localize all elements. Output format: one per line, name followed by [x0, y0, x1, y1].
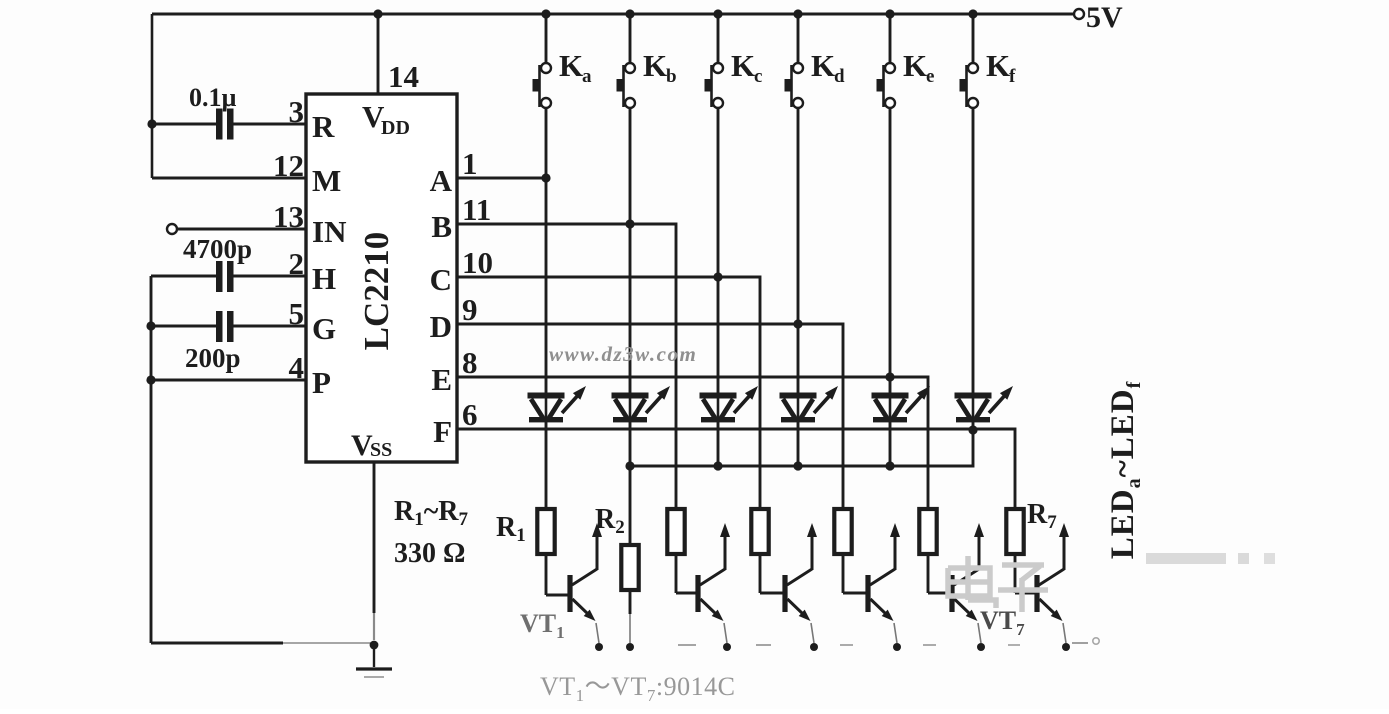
transistor VT6 — [928, 523, 984, 643]
svg-text:e: e — [926, 66, 934, 87]
svg-text:4: 4 — [289, 350, 305, 385]
pin F name — [433, 414, 452, 449]
wire IN row — [177, 228, 306, 231]
svg-text:a: a — [582, 66, 592, 87]
svg-text:K: K — [986, 48, 1010, 83]
label VDD — [362, 99, 410, 139]
svg-text:D: D — [430, 309, 452, 344]
pin M name — [312, 163, 341, 198]
wire LED a tail — [545, 422, 548, 509]
svg-text:330 Ω: 330 Ω — [394, 538, 465, 569]
junction rail-cole — [885, 9, 894, 18]
switch Kf — [960, 14, 979, 108]
wire col e upper — [889, 108, 892, 377]
switch Kc — [705, 14, 724, 108]
svg-text:www.dz3w.com: www.dz3w.com — [549, 342, 697, 366]
wire col e mid — [889, 377, 892, 394]
ground — [356, 641, 392, 677]
svg-text:LEDa~LEDf: LEDa~LEDf — [1105, 381, 1145, 560]
svg-text:2: 2 — [289, 246, 305, 281]
node VT3 emitter — [723, 643, 731, 651]
junction bus-cole — [885, 461, 894, 470]
wire A row pin1 — [457, 177, 546, 180]
wire col a upper — [545, 108, 548, 178]
switch Ke — [877, 14, 896, 108]
svg-text:14: 14 — [388, 59, 419, 94]
label R1-R7 value — [394, 496, 469, 569]
wire LED d tail — [797, 422, 800, 466]
svg-text:K: K — [903, 48, 927, 83]
pin B name — [431, 209, 452, 244]
svg-text:B: B — [431, 209, 452, 244]
svg-text:11: 11 — [462, 192, 491, 227]
wire col d upper — [797, 108, 800, 324]
junction left-P — [146, 375, 155, 384]
resistor R1 — [537, 509, 554, 554]
node VT6 emitter — [977, 643, 985, 651]
wire col f upper — [972, 108, 975, 394]
svg-text:4700p: 4700p — [183, 234, 252, 264]
svg-text:f: f — [1009, 66, 1016, 87]
wire LED f tail — [972, 422, 975, 431]
node VT7 emitter — [1062, 643, 1070, 651]
svg-text:M: M — [312, 163, 341, 198]
label Kc — [731, 48, 762, 87]
wire P row — [151, 379, 306, 382]
svg-text:5V: 5V — [1086, 1, 1123, 34]
svg-text:VT1～VT7:9014C: VT1～VT7:9014C — [540, 672, 735, 705]
wire col b upper — [629, 108, 632, 224]
pin 14 label — [388, 59, 419, 94]
svg-text:R1~R7: R1~R7 — [394, 496, 469, 530]
capacitor C2 4700p — [216, 261, 234, 292]
wire col b mid — [629, 224, 632, 394]
junction rail-cold — [793, 9, 802, 18]
pin 2 label — [289, 246, 305, 281]
pin 12 label — [273, 148, 304, 183]
svg-text:R: R — [312, 109, 335, 144]
LED b — [612, 386, 671, 422]
pin H name — [312, 261, 336, 296]
watermark glyphs — [948, 553, 1275, 612]
LED c — [700, 386, 759, 422]
pin 10 label — [462, 245, 493, 280]
svg-text:8: 8 — [462, 345, 478, 380]
junction B-colb — [625, 219, 634, 228]
pin C name — [430, 262, 452, 297]
wire VSS pin — [373, 462, 376, 640]
junction bus-colc — [713, 461, 722, 470]
transistor VT7 — [1015, 523, 1069, 643]
pin R name — [312, 109, 335, 144]
svg-text:K: K — [643, 48, 667, 83]
resistor R6 — [919, 509, 936, 554]
junction left-C1 — [147, 119, 156, 128]
wire faded ground rail — [678, 638, 1099, 645]
wire LED b tail — [629, 422, 632, 466]
label C3 200p — [185, 343, 241, 373]
switch Kd — [785, 14, 804, 108]
pin 11 label — [462, 192, 491, 227]
wire left vertical top — [151, 14, 154, 178]
wire D row pin9 — [457, 324, 843, 509]
label R1 — [496, 512, 526, 546]
transistor VT3 — [676, 523, 730, 643]
label R7 — [1027, 499, 1057, 533]
label Kd — [811, 48, 845, 87]
label watermark dz3w — [549, 342, 697, 366]
LED f — [955, 386, 1014, 422]
svg-text:0.1µ: 0.1µ — [189, 83, 237, 112]
wire M row — [152, 177, 306, 180]
resistor R7 — [1006, 509, 1023, 554]
wire E row pin8 — [457, 377, 928, 509]
svg-text:12: 12 — [273, 148, 304, 183]
pin G name — [312, 311, 336, 346]
svg-text:LC2210: LC2210 — [357, 232, 396, 351]
junction rail-VDD — [373, 9, 382, 18]
label Kf — [986, 48, 1016, 87]
svg-text:C: C — [430, 262, 452, 297]
junction rail-colb — [625, 9, 634, 18]
label LEDa-LEDf — [1105, 381, 1145, 560]
transistor VT5 — [843, 523, 900, 643]
svg-text:13: 13 — [273, 199, 304, 234]
svg-text:SS: SS — [370, 439, 392, 461]
svg-text:A: A — [430, 163, 453, 198]
wire H row — [151, 275, 306, 278]
junction bus-colb — [625, 461, 634, 470]
svg-text:K: K — [731, 48, 755, 83]
label VT1-VT7 9014C — [540, 672, 735, 705]
pin D name — [430, 309, 452, 344]
junction C-colc — [713, 272, 722, 281]
svg-text:5: 5 — [289, 296, 305, 331]
svg-text:K: K — [559, 48, 583, 83]
capacitor C3 200p — [216, 311, 234, 342]
terminal IN input — [167, 224, 177, 234]
pin 13 label — [273, 199, 304, 234]
pin 1 label — [462, 146, 478, 181]
wire C row pin10 — [457, 277, 760, 509]
pin 6 label — [462, 397, 478, 432]
junction rail-colc — [713, 9, 722, 18]
node VT1 emitter — [595, 643, 603, 651]
label Ka — [559, 48, 592, 87]
label VT7 — [980, 606, 1025, 639]
node R2 ground — [626, 643, 634, 651]
resistor R5 — [834, 509, 851, 554]
wire G row — [151, 325, 306, 328]
wire col a mid — [545, 178, 548, 394]
junction F-colf — [968, 425, 977, 434]
wire R2 lower — [629, 590, 632, 643]
resistor R2 — [621, 545, 638, 590]
pin 5 label — [289, 296, 305, 331]
wire cathode bus — [630, 431, 973, 466]
transistor VT1 — [546, 523, 602, 643]
svg-text:d: d — [834, 66, 845, 87]
svg-text:K: K — [811, 48, 835, 83]
svg-text:10: 10 — [462, 245, 493, 280]
label C2 4700p — [183, 234, 252, 264]
svg-text:b: b — [666, 66, 677, 87]
resistor R4 — [751, 509, 768, 554]
svg-text:P: P — [312, 365, 331, 400]
svg-text:F: F — [433, 414, 452, 449]
pin 4 label — [289, 350, 305, 385]
label Kb — [643, 48, 677, 87]
junction E-cole — [885, 372, 894, 381]
wire LED c tail — [717, 422, 720, 466]
svg-text:DD: DD — [381, 117, 410, 139]
svg-text:1: 1 — [462, 146, 478, 181]
svg-text:c: c — [754, 66, 762, 87]
label C1 0.1u — [189, 83, 237, 112]
junction D-cold — [793, 319, 802, 328]
wire F row pin6 — [457, 429, 1015, 509]
label VT1 — [520, 609, 565, 642]
node VT4 emitter — [810, 643, 818, 651]
svg-text:6: 6 — [462, 397, 478, 432]
junction rail-cola — [541, 9, 550, 18]
svg-text:200p: 200p — [185, 343, 241, 373]
pin 3 label — [289, 94, 305, 129]
svg-text:3: 3 — [289, 94, 305, 129]
pin IN name — [312, 214, 346, 249]
wire VDD pin 14 — [377, 14, 380, 94]
LED a — [528, 386, 587, 422]
svg-text:E: E — [431, 362, 452, 397]
pin 9 label — [462, 292, 478, 327]
op-amp U1 LC2210 body — [306, 94, 457, 462]
svg-text:9: 9 — [462, 292, 478, 327]
node VT5 emitter — [893, 643, 901, 651]
svg-text:G: G — [312, 311, 336, 346]
switch Kb — [617, 14, 636, 108]
switch Ka — [533, 14, 552, 108]
wire R row left — [152, 123, 306, 126]
wire col b lower — [629, 466, 632, 545]
pin P name — [312, 365, 331, 400]
LED d — [780, 386, 839, 422]
resistor R3 — [667, 509, 684, 554]
wire bottom-left ground run — [151, 642, 372, 645]
junction A-cola — [541, 173, 550, 182]
label R2 — [595, 504, 625, 538]
LED e — [872, 386, 931, 422]
transistor VT4 — [760, 523, 817, 643]
capacitor C1 0.1u — [216, 109, 234, 140]
label VSS — [351, 429, 392, 462]
wire col c upper — [717, 108, 720, 277]
wire B row pin11 — [457, 224, 676, 509]
label Ke — [903, 48, 934, 87]
pin 8 label — [462, 345, 478, 380]
junction bus-cold — [793, 461, 802, 470]
junction rail-colf — [968, 9, 977, 18]
wire LED e tail — [889, 422, 892, 466]
svg-text:H: H — [312, 261, 336, 296]
svg-text:IN: IN — [312, 214, 346, 249]
wire col c mid — [717, 277, 720, 394]
pin E name — [431, 362, 452, 397]
label U1 LC2210 — [357, 232, 396, 351]
pin A name — [430, 163, 453, 198]
node 5V power rail wire — [152, 13, 1074, 16]
wire left vertical bottom — [150, 276, 153, 643]
junction left-G — [146, 321, 155, 330]
terminal 5V — [1074, 9, 1084, 19]
label 5V — [1086, 1, 1123, 34]
wire col d mid — [797, 324, 800, 394]
